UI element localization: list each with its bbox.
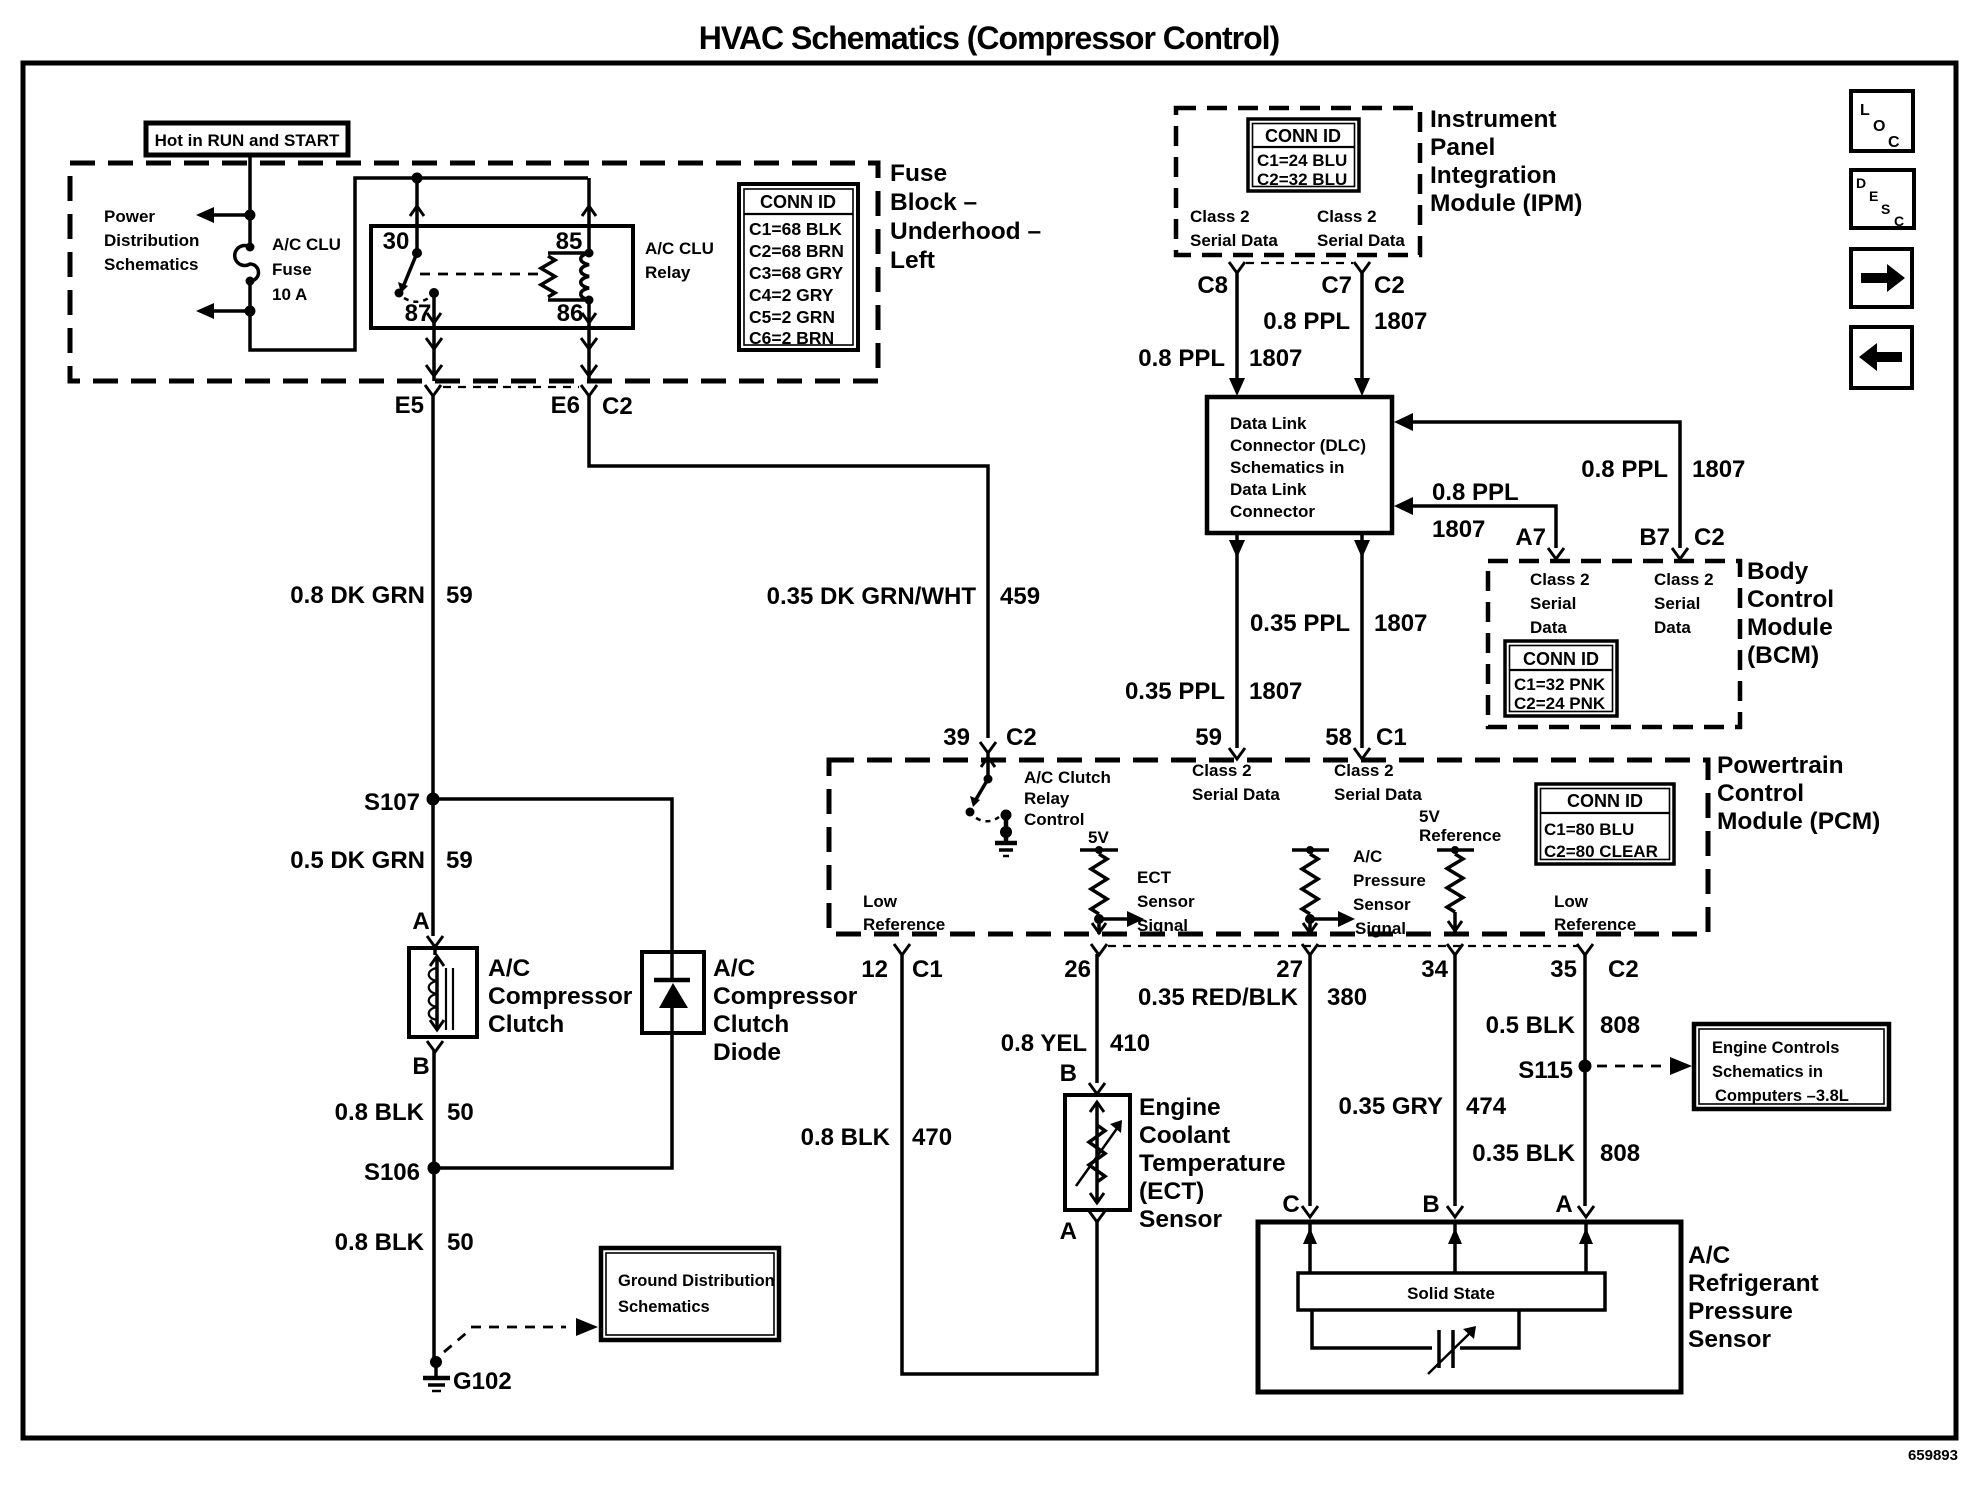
svg-text:58: 58 bbox=[1325, 724, 1352, 751]
diagram title bbox=[699, 20, 1280, 56]
svg-text:Relay: Relay bbox=[645, 263, 691, 282]
connector A7 bbox=[1515, 524, 1564, 559]
svg-text:Block –: Block – bbox=[890, 189, 977, 216]
svg-text:C2: C2 bbox=[1006, 724, 1037, 751]
svg-text:Panel: Panel bbox=[1430, 134, 1495, 161]
svg-text:Compressor: Compressor bbox=[488, 983, 633, 1010]
svg-text:1807: 1807 bbox=[1249, 345, 1302, 372]
wire 0.5 BLK 808 bbox=[1583, 954, 1587, 1066]
svg-text:1807: 1807 bbox=[1374, 308, 1427, 335]
connector B7 C2 bbox=[1639, 524, 1724, 559]
svg-text:26: 26 bbox=[1064, 956, 1091, 983]
svg-text:CONN ID: CONN ID bbox=[1523, 649, 1599, 669]
wire 0.8 DK GRN 59 bbox=[431, 396, 435, 799]
svg-text:Data Link: Data Link bbox=[1230, 480, 1307, 499]
svg-text:30: 30 bbox=[383, 228, 410, 255]
connector PCM 59 bbox=[1195, 724, 1245, 759]
svg-text:Body: Body bbox=[1747, 558, 1809, 585]
label A/C Clutch Relay Control bbox=[1024, 768, 1111, 829]
svg-text:C: C bbox=[1894, 213, 1904, 229]
BCM dashed box bbox=[1488, 561, 1740, 727]
PCM CONN ID table bbox=[1536, 784, 1674, 864]
label class 2 serial data PCM right bbox=[1334, 761, 1422, 804]
svg-text:Clutch: Clutch bbox=[488, 1011, 564, 1038]
svg-text:ECT: ECT bbox=[1137, 868, 1172, 887]
variable capacitive element bbox=[1428, 1326, 1476, 1374]
svg-text:Module (IPM): Module (IPM) bbox=[1430, 190, 1582, 217]
wire 0.35 GRY 474 bbox=[1453, 954, 1457, 1206]
svg-text:C5=2 GRN: C5=2 GRN bbox=[749, 307, 835, 327]
svg-text:10 A: 10 A bbox=[272, 285, 307, 304]
wire DLC to PCM 58 bbox=[1354, 533, 1370, 748]
relay K1 A/C CLU box bbox=[371, 226, 633, 328]
svg-text:Class 2: Class 2 bbox=[1192, 761, 1252, 780]
wire S107 down to clutch A bbox=[431, 799, 435, 936]
svg-text:Data: Data bbox=[1530, 618, 1567, 637]
dashed connector link E5-E6 bbox=[443, 386, 579, 388]
A/C compressor clutch coil box bbox=[409, 948, 477, 1037]
svg-text:12: 12 bbox=[861, 956, 888, 983]
svg-text:Module: Module bbox=[1747, 614, 1833, 641]
relay operate dashed link bbox=[420, 273, 538, 276]
svg-text:86: 86 bbox=[557, 300, 584, 327]
PCM 5V reference supply bbox=[1437, 846, 1474, 854]
svg-text:B: B bbox=[412, 1053, 429, 1080]
svg-text:380: 380 bbox=[1327, 984, 1367, 1011]
svg-text:Integration: Integration bbox=[1430, 162, 1557, 189]
label 0.35 DK GRN/WHT 459 bbox=[767, 583, 1040, 610]
svg-text:1807: 1807 bbox=[1249, 678, 1302, 705]
wire 0.8 YEL 410 bbox=[1095, 954, 1099, 1083]
splice S107 bbox=[364, 789, 440, 816]
svg-text:Class 2: Class 2 bbox=[1654, 570, 1714, 589]
svg-text:Reference: Reference bbox=[1419, 826, 1501, 845]
wire C7 to DLC bbox=[1354, 273, 1370, 396]
connector E6 lower chevron bbox=[581, 365, 597, 376]
PCM 5V supply ECT bbox=[1080, 828, 1118, 854]
svg-text:0.8 BLK: 0.8 BLK bbox=[335, 1099, 425, 1126]
PCM ECT pull-up resistor bbox=[1091, 854, 1107, 914]
svg-text:39: 39 bbox=[943, 724, 970, 751]
relay pin label 86 bbox=[557, 300, 584, 327]
svg-text:50: 50 bbox=[447, 1229, 474, 1256]
svg-text:HVAC Schematics (Compressor Co: HVAC Schematics (Compressor Control) bbox=[699, 20, 1280, 56]
connector sensor pin C bbox=[1282, 1191, 1318, 1218]
label A/C Pressure Sensor Signal bbox=[1353, 847, 1426, 938]
svg-text:C2=32 BLU: C2=32 BLU bbox=[1257, 170, 1347, 189]
svg-text:E: E bbox=[1869, 188, 1878, 204]
svg-text:E6: E6 bbox=[551, 392, 580, 419]
svg-text:(ECT): (ECT) bbox=[1139, 1178, 1204, 1205]
label Fuse Block - Underhood - Left bbox=[890, 160, 1041, 274]
Data Link Connector (DLC) box bbox=[1207, 397, 1392, 533]
svg-text:0.35 DK GRN/WHT: 0.35 DK GRN/WHT bbox=[767, 583, 977, 610]
label Power Distribution Schematics bbox=[104, 207, 199, 274]
relay contact dot 87 bbox=[429, 288, 439, 298]
PCM 5V supply pressure bbox=[1292, 846, 1329, 854]
dashed reference to ground distribution bbox=[444, 1318, 598, 1352]
fuse block underhood dashed box bbox=[70, 163, 878, 381]
svg-text:A/C: A/C bbox=[1353, 847, 1382, 866]
svg-text:0.8 YEL: 0.8 YEL bbox=[1001, 1030, 1087, 1057]
wire pressure to pin 27 bbox=[1303, 919, 1317, 934]
svg-text:0.35 GRY: 0.35 GRY bbox=[1339, 1093, 1444, 1120]
svg-text:0.35 PPL: 0.35 PPL bbox=[1250, 610, 1350, 637]
label A/C CLU Relay bbox=[645, 239, 714, 282]
svg-text:Schematics: Schematics bbox=[618, 1298, 710, 1316]
svg-text:Control: Control bbox=[1024, 810, 1084, 829]
svg-text:Sensor: Sensor bbox=[1139, 1206, 1223, 1233]
svg-text:Low: Low bbox=[863, 892, 898, 911]
connector ECT pin B bbox=[1060, 1060, 1105, 1094]
svg-text:808: 808 bbox=[1600, 1140, 1640, 1167]
wire DLC to PCM 59 bbox=[1229, 533, 1245, 748]
svg-text:Reference: Reference bbox=[1554, 915, 1636, 934]
svg-text:S: S bbox=[1881, 201, 1890, 217]
svg-text:Class 2: Class 2 bbox=[1530, 570, 1590, 589]
ECT sensor box bbox=[1065, 1095, 1130, 1210]
svg-text:C1: C1 bbox=[912, 956, 943, 983]
svg-text:A: A bbox=[1060, 1218, 1077, 1245]
svg-text:B: B bbox=[1422, 1191, 1439, 1218]
next-page arrow icon bbox=[1851, 249, 1912, 307]
svg-text:Computers –3.8L: Computers –3.8L bbox=[1715, 1087, 1849, 1105]
svg-text:C1=80 BLU: C1=80 BLU bbox=[1544, 820, 1634, 839]
svg-text:A: A bbox=[412, 908, 429, 935]
svg-text:50: 50 bbox=[447, 1099, 474, 1126]
label ECT Sensor Signal bbox=[1137, 868, 1195, 935]
svg-text:Class 2: Class 2 bbox=[1317, 207, 1377, 226]
previous-page arrow icon bbox=[1851, 327, 1912, 388]
label 0.35 BLK 808 bbox=[1472, 1140, 1640, 1167]
sensor pin B lead bbox=[1448, 1222, 1462, 1273]
svg-text:34: 34 bbox=[1421, 956, 1448, 983]
label Engine Coolant Temperature (ECT) Sensor bbox=[1139, 1094, 1286, 1233]
connector PCM pin 12 C1 bbox=[861, 944, 942, 983]
label 0.8 PPL 1807 (A7 wire) bbox=[1432, 479, 1519, 543]
dashed reference to engine controls bbox=[1597, 1057, 1692, 1075]
label A/C CLU Fuse 10 A bbox=[272, 235, 341, 304]
wire S107 to diode bbox=[433, 799, 672, 952]
label A/C Compressor Clutch bbox=[488, 955, 633, 1038]
PCM ECT signal junction bbox=[1094, 911, 1144, 927]
connector E5 upper chevron bbox=[426, 338, 442, 349]
svg-text:Class 2: Class 2 bbox=[1190, 207, 1250, 226]
svg-text:A/C: A/C bbox=[1688, 1242, 1731, 1269]
connector E6 upper chevron bbox=[581, 338, 597, 349]
svg-text:0.5 BLK: 0.5 BLK bbox=[1486, 1012, 1576, 1039]
svg-text:Diode: Diode bbox=[713, 1039, 781, 1066]
wire DLC to BCM B7 bbox=[1394, 413, 1680, 548]
connector E5 lower chevron bbox=[426, 365, 442, 376]
wire 0.8 BLK 470 bbox=[902, 954, 1097, 1374]
label A/C Refrigerant Pressure Sensor bbox=[1688, 1242, 1819, 1353]
dashed connector link C8-C7 bbox=[1246, 262, 1353, 264]
svg-text:Sensor: Sensor bbox=[1688, 1326, 1772, 1353]
svg-text:C2=24 PNK: C2=24 PNK bbox=[1514, 694, 1606, 713]
wire hot feed to fuse bbox=[248, 155, 252, 245]
svg-text:A: A bbox=[1555, 1191, 1572, 1218]
connector PCM pin 35 C2 bbox=[1550, 944, 1638, 983]
svg-text:0.8 PPL: 0.8 PPL bbox=[1581, 456, 1668, 483]
label Body Control Module (BCM) bbox=[1747, 558, 1834, 669]
wire feed drop to pin 85 bbox=[587, 178, 591, 253]
svg-text:Serial: Serial bbox=[1530, 594, 1576, 613]
svg-text:Class 2: Class 2 bbox=[1334, 761, 1394, 780]
svg-text:470: 470 bbox=[912, 1124, 952, 1151]
label 0.8 BLK 470 bbox=[801, 1124, 952, 1151]
svg-text:Coolant: Coolant bbox=[1139, 1122, 1230, 1149]
svg-text:CONN ID: CONN ID bbox=[1265, 126, 1341, 146]
svg-text:Refrigerant: Refrigerant bbox=[1688, 1270, 1819, 1297]
svg-text:C4=2 GRY: C4=2 GRY bbox=[749, 285, 834, 305]
label 0.35 RED/BLK 380 bbox=[1138, 984, 1367, 1011]
svg-text:Serial: Serial bbox=[1654, 594, 1700, 613]
svg-text:1807: 1807 bbox=[1692, 456, 1745, 483]
label class 2 serial data PCM left bbox=[1192, 761, 1280, 804]
svg-text:Reference: Reference bbox=[863, 915, 945, 934]
svg-text:C2: C2 bbox=[602, 393, 633, 420]
connector clutch pin A bbox=[427, 936, 443, 947]
connector C8 bbox=[1197, 262, 1245, 299]
PCM dashed box bbox=[829, 760, 1708, 934]
svg-text:E5: E5 bbox=[395, 392, 424, 419]
ECT thermistor bbox=[1076, 1120, 1122, 1186]
svg-text:Temperature: Temperature bbox=[1139, 1150, 1286, 1177]
sensor pin C lead bbox=[1303, 1222, 1317, 1273]
svg-text:C6=2 BRN: C6=2 BRN bbox=[749, 328, 834, 348]
junction dot power distribution bottom bbox=[245, 306, 256, 317]
svg-text:Left: Left bbox=[890, 247, 935, 274]
svg-text:C8: C8 bbox=[1197, 272, 1228, 299]
svg-text:0.35 RED/BLK: 0.35 RED/BLK bbox=[1138, 984, 1299, 1011]
svg-text:Schematics in: Schematics in bbox=[1230, 458, 1344, 477]
svg-text:C3=68 GRY: C3=68 GRY bbox=[749, 263, 844, 283]
label Low Reference right bbox=[1554, 892, 1636, 934]
wire pin 86 down bbox=[587, 300, 591, 381]
svg-text:Data: Data bbox=[1654, 618, 1691, 637]
label class 2 serial data BCM right bbox=[1654, 570, 1714, 637]
label 0.8 BLK 50 lower bbox=[335, 1229, 474, 1256]
svg-text:0.8 BLK: 0.8 BLK bbox=[801, 1124, 891, 1151]
svg-text:C1=68 BLK: C1=68 BLK bbox=[749, 219, 842, 239]
label 0.35 PPL 1807 (58 wire) bbox=[1250, 610, 1427, 637]
svg-text:C7: C7 bbox=[1321, 272, 1352, 299]
svg-text:59: 59 bbox=[446, 847, 473, 874]
label 5V Reference bbox=[1419, 807, 1501, 845]
svg-text:Distribution: Distribution bbox=[104, 231, 199, 250]
diode D1 A/C compressor clutch box bbox=[642, 952, 704, 1033]
arrow pin 87 exit bbox=[427, 313, 441, 323]
wire DLC to BCM A7 bbox=[1394, 497, 1556, 548]
label 0.8 PPL 1807 (B7 wire) bbox=[1581, 456, 1745, 483]
svg-text:0.5 DK GRN: 0.5 DK GRN bbox=[290, 847, 425, 874]
svg-text:C2=68 BRN: C2=68 BRN bbox=[749, 241, 844, 261]
svg-text:S106: S106 bbox=[364, 1159, 420, 1186]
svg-text:59: 59 bbox=[446, 582, 473, 609]
relay pin label 87 bbox=[405, 300, 432, 327]
arrow to power distribution (bottom) bbox=[196, 303, 250, 319]
pin label B clutch bbox=[412, 1053, 429, 1080]
svg-text:Solid State: Solid State bbox=[1407, 1284, 1495, 1303]
splice S106 bbox=[364, 1159, 441, 1186]
wire feed drop to pin 30 bbox=[415, 178, 419, 253]
ground G102 bbox=[423, 1356, 512, 1395]
svg-text:Serial Data: Serial Data bbox=[1190, 231, 1278, 250]
PCM A/C clutch relay control switch bbox=[966, 753, 1012, 821]
relay pin label 85 bbox=[556, 228, 583, 255]
connector PCM pin 26 bbox=[1064, 944, 1107, 983]
svg-text:C2: C2 bbox=[1374, 272, 1405, 299]
svg-text:0.8 PPL: 0.8 PPL bbox=[1432, 479, 1519, 506]
label class 2 serial data BCM left bbox=[1530, 570, 1590, 637]
svg-text:Underhood –: Underhood – bbox=[890, 218, 1041, 245]
pin label A clutch bbox=[412, 908, 429, 935]
svg-text:Connector: Connector bbox=[1230, 502, 1315, 521]
label class 2 serial data IPM left bbox=[1190, 207, 1278, 250]
wire 0.35 RED/BLK 380 bbox=[1308, 954, 1312, 1206]
sensor element loop bbox=[1312, 1310, 1519, 1348]
wire S106 to diode return bbox=[434, 1033, 672, 1168]
BCM CONN ID table bbox=[1505, 641, 1617, 716]
connector sensor pin A bbox=[1555, 1191, 1594, 1218]
sensor pin A lead bbox=[1579, 1222, 1593, 1273]
IPM CONN ID table bbox=[1248, 119, 1359, 191]
svg-text:Serial Data: Serial Data bbox=[1192, 785, 1280, 804]
svg-text:L: L bbox=[1860, 102, 1870, 119]
svg-text:0.8 BLK: 0.8 BLK bbox=[335, 1229, 425, 1256]
connector PCM 58 C1 bbox=[1325, 724, 1406, 759]
label Instrument Panel Integration Module bbox=[1430, 106, 1582, 217]
svg-text:808: 808 bbox=[1600, 1012, 1640, 1039]
label 0.8 PPL 1807 (C8 wire) bbox=[1138, 345, 1302, 372]
svg-text:Module (PCM): Module (PCM) bbox=[1717, 808, 1880, 835]
relay pin label 30 bbox=[383, 228, 410, 255]
connector ECT pin A bbox=[1060, 1211, 1105, 1245]
svg-text:Control: Control bbox=[1747, 586, 1834, 613]
svg-text:0.35 BLK: 0.35 BLK bbox=[1472, 1140, 1575, 1167]
svg-text:1807: 1807 bbox=[1432, 516, 1485, 543]
Solid State box bbox=[1298, 1273, 1605, 1310]
svg-text:C2=80 CLEAR: C2=80 CLEAR bbox=[1544, 842, 1658, 861]
svg-text:C2: C2 bbox=[1694, 524, 1725, 551]
svg-text:Fuse: Fuse bbox=[890, 160, 947, 187]
svg-text:0.35 PPL: 0.35 PPL bbox=[1125, 678, 1225, 705]
LOC icon box bbox=[1851, 91, 1913, 151]
wire S106 to G102 bbox=[432, 1168, 436, 1362]
label 0.8 PPL 1807 (C7 wire) bbox=[1263, 308, 1427, 335]
relay switch dashed throw bbox=[404, 297, 430, 302]
svg-text:1807: 1807 bbox=[1374, 610, 1427, 637]
svg-text:S107: S107 bbox=[364, 789, 420, 816]
svg-text:59: 59 bbox=[1195, 724, 1222, 751]
svg-text:Fuse: Fuse bbox=[272, 260, 312, 279]
label 0.35 PPL 1807 (59 wire) bbox=[1125, 678, 1302, 705]
svg-text:Schematics: Schematics bbox=[104, 255, 199, 274]
svg-text:C1=32 PNK: C1=32 PNK bbox=[1514, 675, 1606, 694]
connector C7 bbox=[1321, 262, 1404, 299]
label 0.8 YEL 410 bbox=[1001, 1030, 1150, 1057]
label A/C Compressor Clutch Diode bbox=[713, 955, 858, 1066]
svg-text:474: 474 bbox=[1466, 1093, 1507, 1120]
relay switch armature bbox=[395, 248, 423, 298]
splice S115 bbox=[1518, 1057, 1591, 1084]
wire clutch A stub bbox=[433, 947, 437, 955]
label 0.5 DK GRN 59 bbox=[290, 847, 472, 874]
svg-text:Powertrain: Powertrain bbox=[1717, 752, 1844, 779]
svg-text:35: 35 bbox=[1550, 956, 1577, 983]
svg-text:Pressure: Pressure bbox=[1688, 1298, 1793, 1325]
svg-text:Compressor: Compressor bbox=[713, 983, 858, 1010]
PCM 5V reference resistor bbox=[1447, 854, 1463, 912]
svg-text:Schematics in: Schematics in bbox=[1712, 1063, 1823, 1081]
svg-text:O: O bbox=[1873, 118, 1885, 135]
wire 0.35 DK GRN/WHT 459 bbox=[589, 396, 988, 738]
connector PCM pin 39 bbox=[943, 724, 1036, 753]
svg-text:0.8 PPL: 0.8 PPL bbox=[1263, 308, 1350, 335]
PCM pressure signal resistor bbox=[1302, 854, 1318, 914]
label 0.8 DK GRN 59 bbox=[290, 582, 472, 609]
label 0.8 BLK 50 upper bbox=[335, 1099, 474, 1126]
svg-text:C1=24 BLU: C1=24 BLU bbox=[1257, 151, 1347, 170]
arrow pin 86 exit bbox=[582, 313, 596, 323]
A/C refrigerant pressure sensor box bbox=[1258, 1222, 1681, 1392]
label 0.35 GRY 474 bbox=[1339, 1093, 1507, 1120]
PCM pressure signal junction bbox=[1305, 911, 1355, 927]
svg-text:459: 459 bbox=[1000, 583, 1040, 610]
svg-text:Pressure: Pressure bbox=[1353, 871, 1426, 890]
IPM dashed box bbox=[1176, 108, 1420, 255]
svg-text:A/C: A/C bbox=[713, 955, 756, 982]
svg-text:0.8 DK GRN: 0.8 DK GRN bbox=[290, 582, 425, 609]
svg-text:Signal: Signal bbox=[1137, 916, 1188, 935]
svg-text:Power: Power bbox=[104, 207, 155, 226]
connector clutch pin B bbox=[427, 1041, 443, 1052]
junction dot power distribution top bbox=[245, 210, 256, 221]
PCM switch ground bbox=[995, 815, 1017, 856]
svg-text:CONN ID: CONN ID bbox=[760, 192, 836, 212]
relay coil resistor bbox=[541, 256, 555, 297]
svg-text:A7: A7 bbox=[1515, 524, 1546, 551]
svg-text:Engine Controls: Engine Controls bbox=[1712, 1039, 1839, 1057]
svg-text:CONN ID: CONN ID bbox=[1567, 791, 1643, 811]
wire clutch B to S106 bbox=[432, 1051, 436, 1168]
label 0.5 BLK 808 bbox=[1486, 1012, 1640, 1039]
label Powertrain Control Module (PCM) bbox=[1717, 752, 1880, 835]
Hot in RUN and START box bbox=[146, 123, 348, 155]
svg-text:Data Link: Data Link bbox=[1230, 414, 1307, 433]
DESC icon box bbox=[1851, 170, 1914, 229]
svg-text:659893: 659893 bbox=[1908, 1447, 1958, 1464]
svg-text:G102: G102 bbox=[453, 1368, 512, 1395]
svg-text:Clutch: Clutch bbox=[713, 1011, 789, 1038]
svg-text:Serial Data: Serial Data bbox=[1334, 785, 1422, 804]
svg-text:0.8 PPL: 0.8 PPL bbox=[1138, 345, 1225, 372]
svg-text:A/C CLU: A/C CLU bbox=[272, 235, 341, 254]
svg-text:410: 410 bbox=[1110, 1030, 1150, 1057]
wire C8 to DLC bbox=[1229, 273, 1245, 396]
relay coil L1 bbox=[548, 249, 594, 305]
label Low Reference left bbox=[863, 892, 945, 934]
svg-text:Sensor: Sensor bbox=[1353, 895, 1411, 914]
svg-text:Signal: Signal bbox=[1355, 919, 1406, 938]
wire ECT to pin 26 bbox=[1092, 919, 1106, 934]
svg-text:Instrument: Instrument bbox=[1430, 106, 1557, 133]
svg-text:Connector (DLC): Connector (DLC) bbox=[1230, 436, 1366, 455]
svg-text:27: 27 bbox=[1276, 956, 1303, 983]
Engine Controls Schematics box bbox=[1694, 1024, 1889, 1109]
svg-text:5V: 5V bbox=[1419, 807, 1440, 826]
